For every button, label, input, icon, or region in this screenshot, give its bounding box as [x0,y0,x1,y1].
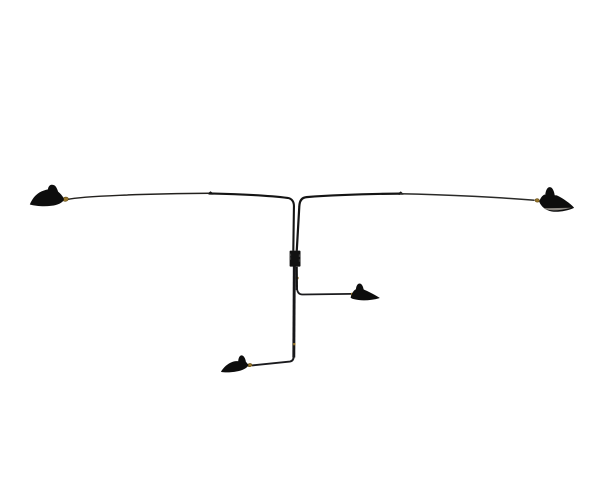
right long arm inner segment with center curve into right sleeve [297,194,400,251]
gold band on bottom tube [293,343,295,345]
right lamp shade (body with knob) [539,187,574,212]
left long arm inner segment with center curve into left sleeve [210,193,294,250]
wall mount bracket [290,251,301,267]
left lamp shade (body with knob) [30,185,64,207]
middle arm pivot sleeve [296,267,298,290]
middle arm pivot gold cap [296,277,299,279]
middle-right lamp shade (body with knob) [351,283,380,300]
vertical back tube below bracket (bottom arm tube) [292,267,295,358]
right brass swivel joint [535,198,540,202]
left arm joint bump [209,191,214,194]
bottom arm bend and horizontal run to the left [252,356,294,366]
right arm joint bump [399,191,404,194]
bracket hinge slots left [290,254,291,257]
bottom arm brass swivel joint [247,363,252,367]
bracket hinge slots right [299,254,300,257]
bottom-left lamp shade (body with knob) [221,355,249,372]
right lamp shade interior (lighter underside) [544,208,572,211]
middle arm gold joint sliver [351,293,353,296]
left brass swivel joint [62,196,69,201]
left long arm outer segment [67,193,210,199]
right long arm outer segment [400,194,535,201]
middle arm bend and horizontal run to the right [297,287,351,295]
